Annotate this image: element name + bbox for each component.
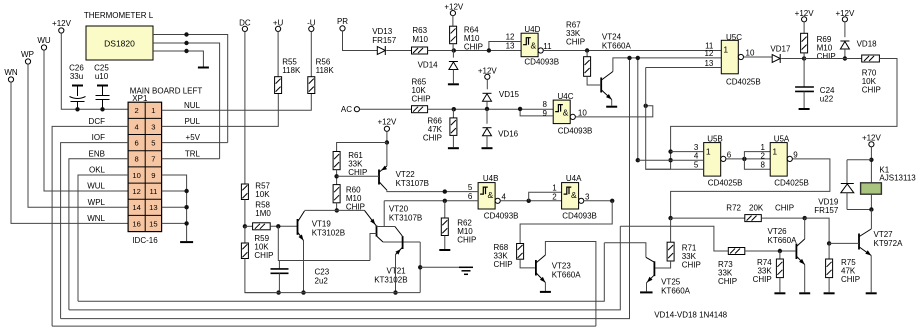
wire bottom rail A xyxy=(245,292,420,294)
wire rail B OKL xyxy=(78,243,604,302)
svg-text:VT21: VT21 xyxy=(387,267,407,276)
wire WN to WNL pin 16 xyxy=(11,82,128,223)
wire R72 to VT26 collector node xyxy=(761,217,804,219)
svg-text:1: 1 xyxy=(760,143,765,152)
svg-text:OKL: OKL xyxy=(89,166,106,175)
svg-text:NUL: NUL xyxy=(184,101,201,110)
wire +12V to R61 and VT22 emitter xyxy=(386,131,388,142)
ground for VD16 xyxy=(482,147,493,149)
wire +5V pin 5 xyxy=(162,142,228,144)
wire U5B pin 4 xyxy=(638,159,704,161)
svg-text:11: 11 xyxy=(149,187,157,196)
svg-text:1: 1 xyxy=(706,147,711,157)
svg-text:CHIP: CHIP xyxy=(412,95,431,104)
wire IOF from pin 6 xyxy=(61,143,129,319)
svg-text:16: 16 xyxy=(132,219,140,228)
wire U4C pin 9 jog xyxy=(520,109,553,116)
svg-text:KT660A: KT660A xyxy=(552,271,582,280)
svg-text:CD4025B: CD4025B xyxy=(774,179,809,188)
svg-text:7: 7 xyxy=(151,155,155,164)
wire H1 VT19 collector to VT20 emitter xyxy=(305,209,365,211)
svg-text:DS1820: DS1820 xyxy=(104,39,135,49)
svg-text:U4B: U4B xyxy=(483,174,499,183)
svg-text:WUL: WUL xyxy=(87,182,105,191)
wire OKL from pin 10 xyxy=(78,175,128,301)
wire +12V to R69 xyxy=(803,22,805,33)
svg-text:ENB: ENB xyxy=(89,149,105,158)
svg-text:4: 4 xyxy=(502,192,507,201)
resistor R61 33K CHIP xyxy=(333,152,340,170)
wire WP to WPL pin 14 xyxy=(28,64,128,207)
svg-text:12: 12 xyxy=(506,33,515,42)
svg-text:10K: 10K xyxy=(255,190,270,199)
svg-text:M10: M10 xyxy=(412,35,428,44)
svg-text:CHIP: CHIP xyxy=(423,134,442,143)
output bubble U4B pin 4 xyxy=(495,198,500,203)
svg-text:KT972A: KT972A xyxy=(874,239,904,248)
svg-text:PR: PR xyxy=(337,17,348,26)
wire R61 to R60 junction xyxy=(336,170,338,185)
svg-text:4: 4 xyxy=(134,122,138,131)
svg-text:3: 3 xyxy=(151,122,155,131)
svg-text:&: & xyxy=(563,108,569,118)
wire R59 to bottom rail A xyxy=(245,259,279,293)
svg-text:u10: u10 xyxy=(95,72,109,81)
svg-text:VD16: VD16 xyxy=(498,130,519,139)
svg-text:+12V: +12V xyxy=(52,19,72,28)
svg-text:13: 13 xyxy=(506,42,515,51)
svg-text:5: 5 xyxy=(694,161,699,170)
wire PR down and right xyxy=(343,31,378,51)
wire U5C pin13 to U5B pin5 vertical xyxy=(646,68,671,170)
wire VT26 emitter to ground xyxy=(804,265,806,293)
svg-text:FR157: FR157 xyxy=(814,206,839,215)
svg-text:R63: R63 xyxy=(412,26,427,35)
svg-text:33u: 33u xyxy=(70,72,83,81)
svg-text:VT26: VT26 xyxy=(768,227,788,236)
wire rail B to VT25 base xyxy=(604,243,646,258)
wire -U down to R56 xyxy=(310,32,312,77)
wire WU to WUL pin 12 xyxy=(44,50,128,191)
wire U5B pin4 to pin12 vertical xyxy=(637,58,639,160)
wire VT20 base vertical to C23 line xyxy=(370,234,377,261)
svg-text:+12V: +12V xyxy=(444,3,464,12)
svg-text:3: 3 xyxy=(585,192,590,201)
svg-text:1M0: 1M0 xyxy=(255,209,271,218)
output bubble U4C pin 10 xyxy=(570,114,575,119)
ground for VT25 xyxy=(640,291,653,293)
output bubble U4D pin 11 xyxy=(538,48,543,53)
wire VD16 to ground xyxy=(486,136,488,148)
svg-text:12: 12 xyxy=(704,49,713,58)
svg-text:THERMOMETER L: THERMOMETER L xyxy=(84,11,154,20)
svg-text:KT660A: KT660A xyxy=(602,42,632,51)
svg-text:CHIP: CHIP xyxy=(566,38,585,47)
svg-text:CHIP: CHIP xyxy=(254,251,273,260)
svg-text:2: 2 xyxy=(760,152,765,161)
wire rail D IOF xyxy=(61,58,630,319)
wire VT22 collector to U4B pin 5 xyxy=(387,190,478,191)
wire R57 to junction xyxy=(244,200,246,227)
svg-text:2u2: 2u2 xyxy=(315,277,329,286)
wire U5B pin 3 xyxy=(671,151,704,153)
svg-text:8: 8 xyxy=(542,100,547,109)
svg-text:CHIP: CHIP xyxy=(457,236,476,245)
svg-text:AC: AC xyxy=(341,105,352,114)
wire NUL pin 1 to R56 xyxy=(162,94,312,111)
svg-text:15: 15 xyxy=(149,219,157,228)
svg-text:CHIP: CHIP xyxy=(348,168,367,177)
svg-text:CHIP: CHIP xyxy=(494,260,513,269)
svg-text:U4A: U4A xyxy=(566,174,582,183)
svg-text:&: & xyxy=(571,190,577,200)
wire R58 to VT19 base xyxy=(270,225,297,227)
resistor R64 M10 CHIP xyxy=(450,26,457,44)
svg-text:8: 8 xyxy=(134,155,138,164)
svg-text:WNL: WNL xyxy=(87,214,105,223)
wire DS1820 pin1 to +5V xyxy=(153,35,228,143)
wire K1 top node to VD19 xyxy=(847,159,871,161)
svg-text:+12V: +12V xyxy=(862,134,882,143)
wire PUL pin 3 to R55 xyxy=(162,94,279,127)
svg-text:KT660A: KT660A xyxy=(768,236,798,245)
svg-text:VD15: VD15 xyxy=(499,90,520,99)
wire node to VT27 collector xyxy=(870,210,872,230)
wire VT20 collector to VT21 base xyxy=(383,241,420,243)
svg-text:KT3102B: KT3102B xyxy=(374,276,407,285)
wire R62 to ground xyxy=(444,236,446,250)
wire VT21 emitter to rail A xyxy=(395,255,397,293)
svg-text:CHIP: CHIP xyxy=(817,52,836,61)
wire R74 to ground xyxy=(779,278,781,293)
svg-text:VT19: VT19 xyxy=(312,220,332,229)
svg-text:VD18: VD18 xyxy=(857,40,878,49)
svg-text:CHIP: CHIP xyxy=(841,275,860,284)
wire VT27 emitter to ground xyxy=(870,256,872,293)
svg-text:1: 1 xyxy=(772,147,777,157)
svg-text:CD4093B: CD4093B xyxy=(558,127,593,136)
wire VT19 emitter to rail A xyxy=(303,241,305,293)
junction dot DC/R58 xyxy=(243,224,247,228)
svg-text:5: 5 xyxy=(468,183,473,192)
svg-text:CHIP: CHIP xyxy=(775,204,794,213)
wire VT23 collector loop to rail E xyxy=(545,242,596,327)
ground for R66 xyxy=(448,147,459,149)
ground for VT27 xyxy=(866,292,877,294)
svg-text:VD14: VD14 xyxy=(418,61,439,70)
wire VT22 emitter to +12V node xyxy=(386,143,388,167)
resistor R56 118K xyxy=(308,77,315,94)
wire DS1820 pin2 to TRL xyxy=(153,43,220,159)
wire VT24 emitter to ground xyxy=(611,100,613,106)
svg-text:AJS13113: AJS13113 xyxy=(879,174,916,183)
IC DS1820 xyxy=(86,26,153,60)
svg-text:118K: 118K xyxy=(282,66,301,75)
ground for R75 xyxy=(824,292,835,294)
wire R75 to ground xyxy=(828,278,830,293)
svg-text:VD14-VD18 1N4148: VD14-VD18 1N4148 xyxy=(654,311,727,320)
wire U4D pin 12 xyxy=(489,42,521,51)
svg-text:CD4093B: CD4093B xyxy=(562,212,597,221)
wire R67 to VT24 base xyxy=(587,76,600,85)
wire pins 9,11,13,15 to ground xyxy=(162,175,187,241)
svg-text:10: 10 xyxy=(578,109,587,118)
ground for R74 xyxy=(774,292,785,294)
output bubble U5A pin 9 xyxy=(787,156,792,161)
svg-text:KT3102B: KT3102B xyxy=(312,229,345,238)
ground for R62 xyxy=(439,249,450,251)
svg-text:VT27: VT27 xyxy=(874,230,894,239)
ground for DS1820 xyxy=(198,67,209,69)
wire DS1820 pin3 to ground xyxy=(153,51,203,67)
svg-text:10: 10 xyxy=(132,171,140,180)
svg-text:1: 1 xyxy=(552,184,557,193)
wire U4C out jog to U5C pin 13 vertical xyxy=(575,106,652,117)
wire R69 to node xyxy=(803,53,805,59)
svg-text:U4D: U4D xyxy=(524,25,540,34)
svg-text:6: 6 xyxy=(134,138,138,147)
ground for VT24 xyxy=(606,106,617,108)
svg-text:CHIP: CHIP xyxy=(862,86,881,95)
svg-text:KT3107B: KT3107B xyxy=(396,179,429,188)
svg-text:+12V: +12V xyxy=(377,118,397,127)
svg-text:CHIP: CHIP xyxy=(718,277,737,286)
wire +12V down to rail xyxy=(61,33,128,109)
svg-text:8: 8 xyxy=(760,161,765,170)
wire VT23 emitter to ground xyxy=(544,283,546,291)
ground for VD14 xyxy=(448,83,459,85)
svg-text:KT660A: KT660A xyxy=(661,287,691,296)
wire U5C pin 13 line xyxy=(646,67,722,69)
svg-text:FR157: FR157 xyxy=(372,36,397,45)
wire U4A pin 1 jog xyxy=(529,192,562,201)
wire U5A pin 8 jog xyxy=(744,159,770,169)
ground for VT23 xyxy=(540,291,551,293)
wire R63 to node and U4D xyxy=(428,50,521,52)
svg-text:11: 11 xyxy=(543,42,552,51)
resistor R69 M10 CHIP xyxy=(801,33,808,53)
wire VT26 collector to R72 node xyxy=(804,218,806,239)
wire U5B pin 5 xyxy=(646,168,704,170)
wire TRL pin 7 xyxy=(162,158,220,160)
junction dot VD14 node xyxy=(452,48,456,52)
junction dot R67 node xyxy=(585,48,589,52)
wire VT21 collector branch to ground and rail xyxy=(419,242,421,293)
svg-text:CD4093B: CD4093B xyxy=(484,212,519,221)
wire K1 bottom node xyxy=(870,194,872,209)
svg-text:CD4025B: CD4025B xyxy=(708,179,743,188)
wire node to VT27 base node xyxy=(805,218,829,243)
wire VD18 to node xyxy=(844,49,846,59)
wire +12V to R64 xyxy=(452,16,454,27)
output bubble U5C pin 10 xyxy=(738,54,743,59)
wire U5B out to U5A xyxy=(726,158,770,160)
wire rail C ENB xyxy=(69,226,620,310)
wire DCF from pin 4 xyxy=(52,126,128,326)
svg-text:13: 13 xyxy=(149,203,157,212)
junction dot VD15 node xyxy=(485,107,489,111)
wire U5C out to VD17 xyxy=(744,56,773,58)
wire U4B out to U4A inputs xyxy=(500,200,561,202)
svg-text:5: 5 xyxy=(151,138,155,147)
wire AC to R65 xyxy=(360,108,412,110)
wire VT27 base line xyxy=(829,242,859,244)
wire ENB from pin 8 xyxy=(69,159,128,310)
wire VT25 emitter to ground xyxy=(646,283,648,292)
svg-text:4: 4 xyxy=(694,152,699,161)
ground for VT26 xyxy=(799,292,810,294)
output bubble U4A pin 3 xyxy=(579,198,584,203)
svg-text:6: 6 xyxy=(727,150,732,159)
svg-text:VT24: VT24 xyxy=(602,33,622,42)
svg-text:WU: WU xyxy=(37,36,51,45)
svg-text:CD4025B: CD4025B xyxy=(726,78,761,87)
connector XP1 IDC-16 body xyxy=(128,102,162,231)
wire R72 line xyxy=(671,217,745,219)
svg-text:WN: WN xyxy=(4,68,18,77)
svg-text:u22: u22 xyxy=(820,95,834,104)
ground for XP1 odd pins xyxy=(180,241,193,243)
svg-text:14: 14 xyxy=(132,203,140,212)
wire R60 bottom to H1 node xyxy=(336,203,338,211)
resistor R57 10K xyxy=(241,184,248,200)
svg-text:R72: R72 xyxy=(726,204,741,213)
svg-text:TRL: TRL xyxy=(185,149,201,158)
svg-text:IOF: IOF xyxy=(92,133,105,142)
wire U4B pin6 down to VT21 collector line xyxy=(377,201,385,227)
wire VD13 to R63 xyxy=(386,50,411,52)
svg-text:1: 1 xyxy=(151,106,155,115)
svg-text:6: 6 xyxy=(468,192,473,201)
junction dot R58/C23 xyxy=(276,224,280,228)
svg-text:DCF: DCF xyxy=(89,117,106,126)
wire +U down to R55 xyxy=(277,32,279,77)
svg-text:WP: WP xyxy=(21,50,34,59)
wire rail C to R73 xyxy=(620,226,728,251)
svg-text:VT25: VT25 xyxy=(661,278,681,287)
svg-text:CHIP: CHIP xyxy=(464,43,483,52)
svg-text:VD13: VD13 xyxy=(372,27,393,36)
resistor R59 10K CHIP xyxy=(241,243,248,259)
wire node to R70 xyxy=(804,58,862,60)
svg-text:&: & xyxy=(530,41,536,51)
wire R59 chain down to rail xyxy=(244,226,246,243)
svg-text:KT3107B: KT3107B xyxy=(389,214,422,223)
svg-text:VD17: VD17 xyxy=(770,45,791,54)
junction dots on DS1820 pins xyxy=(184,32,188,36)
svg-text:C23: C23 xyxy=(315,268,330,277)
wire DC down to R57 xyxy=(244,32,246,185)
output bubble U5B pin 6 xyxy=(721,156,726,161)
svg-text:&: & xyxy=(487,190,493,200)
wire VD17 to node xyxy=(781,58,804,60)
svg-text:9: 9 xyxy=(542,109,547,118)
svg-text:3: 3 xyxy=(694,143,699,152)
wire +12V to K1 node xyxy=(870,147,872,183)
wire R68 to VT23 base xyxy=(520,259,535,268)
svg-text:20K: 20K xyxy=(749,204,764,213)
wire VT22 base from R61 node xyxy=(337,175,379,177)
svg-text:9: 9 xyxy=(151,171,155,180)
resistor R55 118K xyxy=(275,77,282,94)
wire U4B pin 6 line xyxy=(384,200,478,202)
svg-text:12: 12 xyxy=(132,187,140,196)
svg-text:CHIP: CHIP xyxy=(682,261,701,270)
svg-text:1: 1 xyxy=(723,44,728,54)
svg-text:PUL: PUL xyxy=(184,117,200,126)
svg-text:+5V: +5V xyxy=(186,133,201,142)
wire rail E DCF xyxy=(52,325,596,327)
wire U4D out to U5C pin 11 xyxy=(543,50,721,52)
wire R66 to ground xyxy=(452,135,454,147)
junction dot R66 node xyxy=(452,107,456,111)
wire U4A out to R68 xyxy=(584,200,612,202)
svg-text:VT20: VT20 xyxy=(389,205,409,214)
wire R70 loop to U5B inputs xyxy=(671,59,897,170)
svg-text:IDC-16: IDC-16 xyxy=(132,236,158,245)
wire U5A pin 1 jog xyxy=(744,152,770,159)
wire U5A out loop to R72 line xyxy=(671,159,830,218)
resistor R60 M10 CHIP xyxy=(333,185,340,203)
wire R64 to node xyxy=(452,44,454,51)
svg-text:VT22: VT22 xyxy=(396,170,416,179)
svg-text:9: 9 xyxy=(793,150,798,159)
svg-text:2: 2 xyxy=(134,106,138,115)
svg-text:CHIP: CHIP xyxy=(753,275,772,284)
chassis ground near VT21 xyxy=(459,266,473,268)
svg-text:13: 13 xyxy=(704,59,713,68)
wire R65 to U4C pin8 xyxy=(428,108,555,110)
wire R71 to VT25 collector xyxy=(655,261,670,268)
svg-text:WPL: WPL xyxy=(88,198,106,207)
wire +12V to VD15 xyxy=(486,79,488,89)
svg-text:118K: 118K xyxy=(316,66,335,75)
svg-text:CD4093B: CD4093B xyxy=(524,58,559,67)
svg-text:2: 2 xyxy=(552,192,557,201)
svg-text:10: 10 xyxy=(746,49,755,58)
wire VT24 collector to U5C pin 12 xyxy=(613,58,721,72)
ground for C24 xyxy=(799,108,810,110)
svg-text:VT23: VT23 xyxy=(552,262,572,271)
resistor R72 xyxy=(745,215,762,222)
wire R73 to R74 node xyxy=(745,250,796,252)
